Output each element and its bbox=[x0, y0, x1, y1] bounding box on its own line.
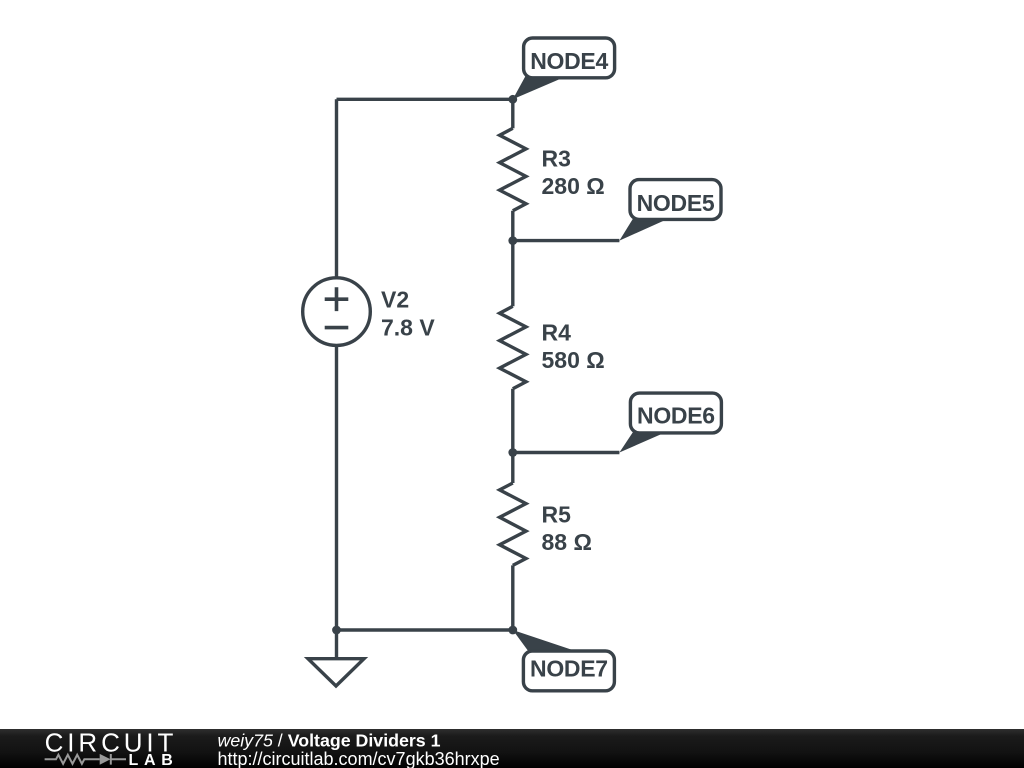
junction dot NODE7 bbox=[508, 626, 517, 635]
svg-text:NODE7: NODE7 bbox=[530, 655, 608, 681]
node NODE4 callout bubble bbox=[524, 38, 615, 78]
node NODE5 callout bubble bbox=[630, 180, 721, 220]
svg-text:88 Ω: 88 Ω bbox=[542, 529, 592, 555]
svg-text:V2: V2 bbox=[381, 287, 409, 313]
junction dot NODE4 bbox=[508, 95, 517, 104]
svg-text:NODE6: NODE6 bbox=[637, 403, 715, 429]
wire between R3 and R4 bbox=[511, 211, 514, 307]
node NODE6 callout bubble bbox=[630, 393, 721, 433]
wire between R4 and R5 bbox=[511, 389, 514, 483]
svg-text:580 Ω: 580 Ω bbox=[542, 347, 605, 373]
wire left vertical lower bbox=[335, 346, 338, 630]
wire below R5 bbox=[511, 565, 514, 630]
svg-text:R3: R3 bbox=[542, 146, 571, 172]
svg-text:R4: R4 bbox=[542, 320, 572, 346]
wire NODE6 branch bbox=[513, 451, 620, 454]
svg-text:http://circuitlab.com/cv7gkb36: http://circuitlab.com/cv7gkb36hrxpe bbox=[218, 749, 500, 768]
svg-text:R5: R5 bbox=[542, 502, 572, 528]
wire NODE5 branch bbox=[513, 239, 620, 242]
wire ground stub bbox=[335, 630, 338, 659]
resistor R3 bbox=[500, 128, 526, 210]
wire bottom horizontal bbox=[337, 628, 513, 631]
svg-text:weiy75 / Voltage Dividers 1: weiy75 / Voltage Dividers 1 bbox=[218, 731, 441, 751]
resistor R4 bbox=[500, 306, 526, 388]
node NODE4 callout tail bbox=[513, 76, 567, 99]
svg-text:NODE5: NODE5 bbox=[637, 190, 715, 216]
footer bar bbox=[0, 729, 1024, 768]
svg-text:280 Ω: 280 Ω bbox=[542, 173, 605, 199]
V2 minus sign bbox=[325, 326, 349, 330]
wire top horizontal bbox=[337, 98, 513, 101]
node NODE6 callout tail bbox=[619, 429, 673, 453]
footer logo symbol wire bbox=[45, 754, 126, 765]
node NODE7 callout tail bbox=[513, 630, 583, 654]
ground bbox=[308, 659, 364, 686]
wire left vertical upper bbox=[335, 99, 338, 277]
wire right vertical segment above R3 bbox=[511, 99, 514, 128]
svg-text:NODE4: NODE4 bbox=[530, 48, 608, 74]
svg-text:7.8 V: 7.8 V bbox=[381, 315, 435, 341]
node NODE7 callout bubble bbox=[523, 651, 614, 691]
resistor R5 bbox=[500, 483, 526, 565]
junction dot NODE6 bbox=[508, 448, 517, 457]
voltage source V2 bbox=[303, 278, 371, 346]
junction dot ground bbox=[332, 626, 341, 635]
footer logo diode bbox=[100, 754, 111, 765]
V2 plus sign bbox=[325, 287, 349, 311]
junction dot NODE5 bbox=[508, 236, 517, 245]
node NODE5 callout tail bbox=[619, 217, 672, 241]
svg-text:LAB: LAB bbox=[129, 752, 179, 768]
